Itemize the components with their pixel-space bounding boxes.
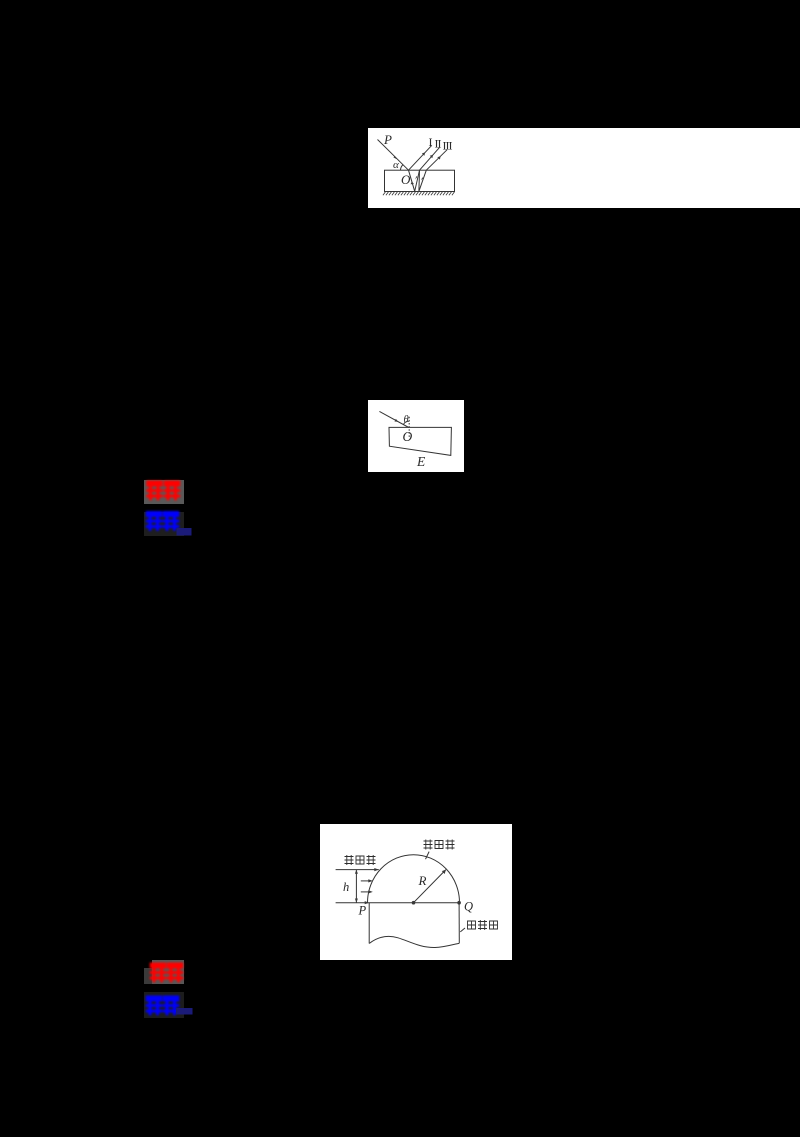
svg-text:II: II xyxy=(435,137,442,151)
diameter line P-Q xyxy=(336,902,460,904)
dome arc (collecting sphere) xyxy=(368,855,460,903)
normal dotted line xyxy=(408,417,410,439)
ray II arrowhead xyxy=(430,155,433,159)
blue analysis badge text blob xyxy=(147,513,178,530)
internal ray C-D xyxy=(418,170,421,191)
svg-text:III: III xyxy=(443,139,453,153)
blue analysis badge background xyxy=(144,512,184,536)
internal ray O-B arrowhead xyxy=(411,181,414,184)
hatching under slab xyxy=(383,192,455,195)
emergent ray III xyxy=(426,150,447,170)
label sun light (taiyangguang) xyxy=(345,855,376,865)
incident ray to O xyxy=(379,411,408,427)
radius line R xyxy=(414,870,446,903)
middle sun arrow 2 xyxy=(361,891,371,893)
svg-text:α: α xyxy=(393,159,399,171)
top sunlight boundary line xyxy=(336,869,379,871)
incident ray arrowhead xyxy=(393,156,396,159)
svg-text:P: P xyxy=(358,904,367,918)
red answer badge 2 left patch xyxy=(144,968,152,984)
angle alpha arc xyxy=(401,165,404,171)
red answer badge text blob xyxy=(148,482,180,499)
glass slab rectangle xyxy=(385,170,455,191)
incident ray arrowhead (fig2) xyxy=(395,419,399,422)
figure 3 white panel xyxy=(320,824,512,960)
top sunlight arrowhead xyxy=(374,868,379,871)
tube right wall xyxy=(458,903,460,944)
blue analysis badge 2 text blob xyxy=(147,997,178,1014)
svg-text:R: R xyxy=(418,873,427,888)
svg-text:E: E xyxy=(416,454,426,469)
figure 2 white panel xyxy=(368,400,464,472)
internal ray B-C arrowhead xyxy=(415,176,417,179)
angle theta arc xyxy=(403,421,409,424)
reflected ray I xyxy=(409,145,432,170)
svg-text:P: P xyxy=(383,132,392,147)
red answer badge background xyxy=(144,480,184,504)
internal ray D-E arrowhead xyxy=(421,177,423,180)
radius arrowhead xyxy=(442,870,446,874)
red answer badge 2 text blob xyxy=(151,964,182,981)
ray III arrowhead xyxy=(437,156,440,160)
leader line to tube label xyxy=(460,928,465,932)
svg-text:h: h xyxy=(343,880,349,894)
navy cursor rectangle 1 xyxy=(177,528,192,536)
bottom sun arrowhead at P xyxy=(365,901,370,904)
point Q dot xyxy=(457,901,461,905)
center dot xyxy=(412,901,416,905)
svg-text:O: O xyxy=(403,429,413,444)
figure 1 white panel xyxy=(368,128,800,208)
internal reflected ray B-C xyxy=(415,170,420,191)
internal ray D-E xyxy=(419,170,426,191)
leader line to dome label xyxy=(426,852,430,860)
label collecting sphere (jiguangqiu) xyxy=(424,840,455,850)
svg-text:θ: θ xyxy=(404,415,409,426)
ray I arrowhead xyxy=(422,152,425,156)
h measurement double arrow xyxy=(355,870,357,903)
prism E quadrilateral xyxy=(389,427,451,455)
tube left wall xyxy=(368,903,370,944)
blue analysis badge 2 background xyxy=(144,992,184,1018)
svg-text:Q: Q xyxy=(464,900,473,914)
internal refracted ray O-B xyxy=(409,170,415,191)
incident ray P xyxy=(378,140,409,171)
emergent ray II xyxy=(420,147,440,170)
middle sun arrow 1 xyxy=(361,880,371,882)
svg-text:I: I xyxy=(429,135,433,149)
navy cursor rectangle 2 xyxy=(176,1008,193,1015)
label light guide tube (daoguangguan) xyxy=(468,920,498,930)
tube wavy bottom xyxy=(369,936,459,947)
red answer badge 2 background xyxy=(152,960,184,984)
svg-text:O: O xyxy=(401,172,411,187)
